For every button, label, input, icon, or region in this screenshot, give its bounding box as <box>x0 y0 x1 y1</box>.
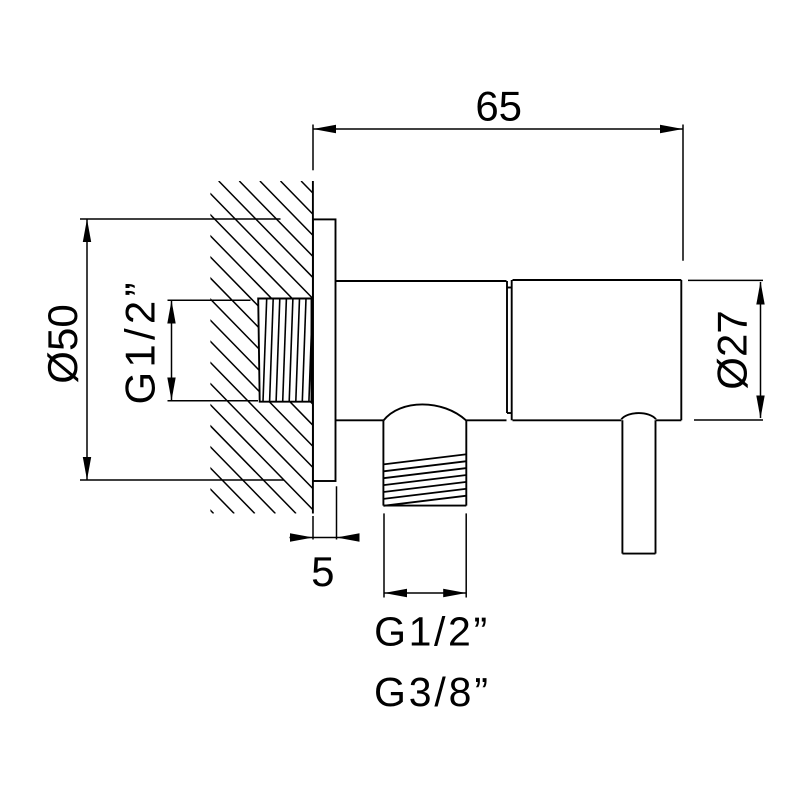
svg-text:Ø27: Ø27 <box>709 310 756 389</box>
handle stem <box>621 413 656 554</box>
svg-text:65: 65 <box>475 83 522 130</box>
svg-text:5: 5 <box>311 548 334 595</box>
valve body right cylinder <box>513 280 682 420</box>
body seam joint <box>507 280 512 420</box>
svg-text:G3/8”: G3/8” <box>374 669 488 715</box>
valve body left cylinder <box>336 281 507 420</box>
outlet threads <box>384 454 466 505</box>
dimension 65 lines <box>313 125 683 261</box>
label D27 <box>709 310 756 389</box>
escutcheon plate <box>313 219 336 481</box>
label D50 <box>39 304 86 383</box>
wall face line (right side of wall) <box>312 181 314 514</box>
dimension D50 lines <box>80 219 284 480</box>
wall thread block G1/2 (hatched trapezoid) <box>258 299 312 402</box>
dimension 5 plate thickness lines <box>290 486 360 539</box>
svg-text:G1/2”: G1/2” <box>374 609 487 655</box>
dimension G1/2 outlet lines <box>384 513 466 597</box>
wall hatch <box>0 181 626 514</box>
dimension G1/2 wall lines <box>168 300 259 401</box>
outlet spout <box>383 404 466 505</box>
svg-text:Ø50: Ø50 <box>39 304 86 383</box>
dimension D27 lines <box>688 280 763 420</box>
label G1/2 inch wall <box>117 283 164 405</box>
